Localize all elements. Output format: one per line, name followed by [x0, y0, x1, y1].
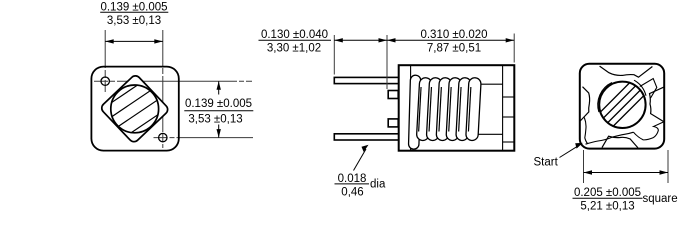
mounting pin 2 [159, 133, 167, 141]
bottom notch [602, 136, 638, 148]
core corner lines top-right [640, 79, 657, 99]
bottom lead [334, 134, 399, 140]
coil turn 6 [466, 77, 482, 140]
body outline [399, 65, 515, 151]
core edge arc top-left [598, 83, 612, 113]
dim line 0.310 [387, 39, 514, 41]
slot hatch lines [592, 59, 653, 147]
core ear bottom-right [634, 122, 664, 140]
top lead [334, 77, 399, 83]
left notch [580, 87, 589, 121]
package outline (rounded square) [91, 67, 178, 151]
svg-text:0.018: 0.018 [338, 173, 367, 185]
inner flange line right [502, 65, 504, 151]
coil wire edge [459, 87, 461, 132]
ext line seating plane [386, 35, 388, 89]
top tab [388, 91, 398, 99]
top notch [600, 66, 653, 77]
slot hatch lines [105, 67, 165, 151]
centerline pin1 horizontal [94, 80, 252, 82]
coil wire edge [468, 87, 470, 132]
centerline pin1 vertical [104, 30, 106, 92]
coil wire edge [449, 87, 451, 132]
svg-text:0.139 ±0.005: 0.139 ±0.005 [100, 1, 167, 13]
molding flash bottom-left [584, 118, 587, 144]
centerline pin2 horizontal [154, 137, 254, 139]
coil wire edge [419, 87, 421, 132]
svg-text:7,87 ±0,51: 7,87 ±0,51 [427, 43, 481, 55]
svg-text:5,21 ±0,13: 5,21 ±0,13 [580, 201, 634, 213]
svg-text:0.139 ±0.005: 0.139 ±0.005 [185, 98, 252, 110]
core column line 2 [503, 116, 514, 118]
core column line 3 [503, 141, 514, 143]
coil wire edge [429, 87, 431, 132]
screw-slot circle [111, 85, 159, 133]
bottom tab [388, 119, 398, 127]
coil turn 2 [426, 77, 442, 140]
svg-text:0,46: 0,46 [341, 186, 363, 198]
leader arrow to lead dia [354, 149, 367, 171]
svg-text:Start: Start [534, 157, 559, 169]
core edge arc top-right [634, 80, 646, 96]
mounting pin 1 [101, 77, 109, 85]
ext line square right [667, 150, 669, 183]
svg-text:0.310 ±0.020: 0.310 ±0.020 [420, 29, 487, 41]
core square (rotated, rounded corners) [100, 74, 170, 144]
coil wire edge [439, 87, 441, 132]
ext line body right [513, 34, 515, 63]
dim line 0.139 horizontal (top) [105, 40, 163, 42]
coil turn 1 [416, 77, 432, 140]
dim line 0.139 vertical (right of view) [218, 81, 220, 137]
ext line through lead [386, 76, 388, 89]
start wire wavy line [586, 132, 634, 144]
svg-text:3,30 ±1,02: 3,30 ±1,02 [267, 43, 321, 55]
dim line 0.205 [584, 172, 669, 174]
ext line lead tip [333, 35, 335, 75]
svg-text:square: square [643, 193, 678, 205]
ext line square left [583, 150, 585, 183]
core circle [599, 82, 645, 128]
coil turn 4 [446, 77, 462, 140]
svg-text:dia: dia [370, 178, 386, 190]
inner flange line left [410, 65, 412, 151]
coil turn 3 [436, 77, 452, 140]
svg-text:3,53 ±0,13: 3,53 ±0,13 [107, 15, 161, 27]
centerline pin2 vertical [162, 30, 164, 148]
svg-text:0.205 ±0.005: 0.205 ±0.005 [574, 187, 641, 199]
svg-text:3,53 ±0,13: 3,53 ±0,13 [188, 113, 242, 125]
package outline [580, 64, 664, 149]
svg-text:0.130 ±0.040: 0.130 ±0.040 [261, 29, 328, 41]
core column line 1 [503, 96, 514, 98]
dim line 0.130 [334, 39, 387, 41]
winding window bottom line [411, 133, 503, 135]
Start leader arrow [560, 145, 580, 157]
coil turn 0 (start, tall) [408, 75, 420, 149]
right notch [650, 87, 664, 122]
winding window top line [411, 83, 503, 85]
coil turn 5 [456, 77, 472, 140]
